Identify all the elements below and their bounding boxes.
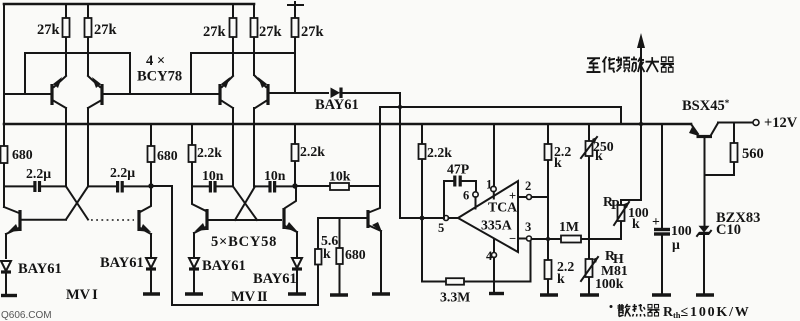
svg-text:BAY61: BAY61 (202, 258, 246, 274)
svg-text:47P: 47P (447, 162, 470, 177)
svg-text:4: 4 (486, 249, 493, 263)
svg-text:680: 680 (12, 147, 33, 162)
svg-text:2.2μ: 2.2μ (110, 165, 135, 180)
svg-text:BAY61: BAY61 (315, 97, 359, 113)
svg-text:680: 680 (157, 148, 178, 163)
svg-text:TCA: TCA (488, 200, 517, 215)
svg-text:100: 100 (671, 223, 692, 238)
svg-text:C10: C10 (716, 222, 741, 238)
svg-text:MVII: MVII (231, 289, 268, 305)
svg-text:BCY78: BCY78 (137, 69, 182, 85)
svg-text:2.2k: 2.2k (197, 145, 222, 160)
svg-text:335A: 335A (481, 218, 512, 233)
svg-text:+12V: +12V (764, 115, 798, 131)
svg-text:6: 6 (463, 189, 469, 203)
svg-text:μ: μ (672, 237, 680, 252)
svg-text:1M: 1M (559, 219, 579, 234)
svg-text:Rth≤100K/W: Rth≤100K/W (663, 304, 751, 320)
svg-text:10n: 10n (202, 168, 224, 183)
svg-text:k: k (554, 155, 562, 170)
svg-text:BAY61: BAY61 (18, 261, 62, 277)
svg-text:+: + (652, 214, 660, 229)
svg-text:BSX45*: BSX45* (682, 98, 730, 114)
svg-text:2.2k: 2.2k (300, 144, 325, 159)
svg-text:680: 680 (345, 247, 366, 262)
svg-text:1: 1 (486, 178, 492, 192)
svg-text:P: P (611, 197, 620, 212)
svg-text:k: k (632, 216, 640, 231)
svg-text:k: k (595, 148, 603, 163)
svg-text:4 ×: 4 × (146, 53, 165, 69)
svg-text:100k: 100k (595, 276, 624, 291)
svg-text:MVI: MVI (66, 287, 98, 303)
svg-text:2: 2 (525, 179, 531, 193)
svg-text:2.2μ: 2.2μ (26, 166, 51, 181)
svg-text:2.2k: 2.2k (427, 145, 452, 160)
svg-text:27k: 27k (203, 24, 227, 40)
svg-text:27k: 27k (94, 22, 118, 38)
svg-text:5×BCY58: 5×BCY58 (211, 234, 277, 250)
svg-text:3.3M: 3.3M (440, 290, 470, 305)
svg-text:27k: 27k (37, 22, 61, 38)
svg-text:5: 5 (438, 221, 444, 235)
svg-text:k: k (323, 246, 331, 261)
svg-text:BAY61: BAY61 (253, 271, 297, 287)
svg-text:27k: 27k (259, 24, 283, 40)
svg-text:27k: 27k (301, 24, 325, 40)
svg-text:10n: 10n (264, 168, 286, 183)
svg-text:3: 3 (525, 220, 531, 234)
svg-text:560: 560 (742, 146, 764, 162)
svg-text:Q606.COM: Q606.COM (1, 310, 52, 321)
svg-text:−: − (509, 232, 516, 246)
svg-text:BAY61: BAY61 (100, 255, 144, 271)
svg-text:k: k (557, 271, 565, 286)
svg-text:10k: 10k (329, 169, 351, 184)
